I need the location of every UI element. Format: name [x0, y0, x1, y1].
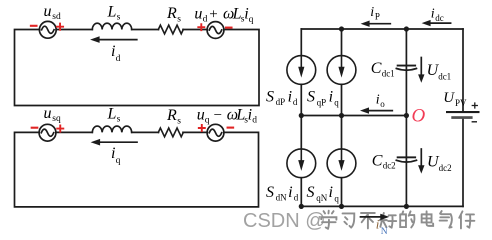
svg-text:d: d	[252, 116, 257, 126]
svg-text:q: q	[334, 193, 339, 203]
wire branch3 capacitor vertical	[405, 29, 407, 206]
svg-text:R: R	[166, 5, 177, 22]
watermark hanzi hao	[380, 213, 397, 228]
inductor L_s	[92, 23, 131, 29]
svg-text:S: S	[307, 184, 315, 201]
svg-text:d: d	[294, 192, 299, 202]
svg-text:O: O	[412, 106, 426, 127]
wire loop1 rectangle	[15, 30, 260, 106]
svg-text:qP: qP	[317, 97, 327, 107]
svg-text:i: i	[329, 184, 333, 201]
polarity plus of u_sq	[57, 126, 63, 132]
label u_sq	[44, 105, 61, 124]
label C_dc1	[371, 60, 395, 78]
arrow i_P	[368, 23, 390, 25]
label i_P	[370, 5, 380, 21]
junction dot bottom rail x406	[404, 204, 409, 209]
battery plus	[472, 103, 477, 108]
wire right side vertical with battery gap	[462, 29, 464, 206]
wire top rail	[301, 28, 463, 30]
polarity plus of u_d source	[198, 24, 204, 30]
current source S_qN i_q	[327, 149, 356, 178]
label S_dP i_d	[266, 88, 298, 106]
polarity plus of u_q source	[199, 125, 205, 131]
svg-text:s: s	[117, 115, 121, 125]
polarity minus of u_q source	[228, 127, 234, 129]
svg-text:d: d	[116, 54, 121, 64]
wire bottom rail	[301, 205, 463, 207]
svg-text:L: L	[107, 3, 117, 20]
svg-text:s: s	[117, 13, 121, 23]
svg-text:i: i	[431, 7, 435, 22]
wire loop2 source1 to inductor	[56, 131, 93, 133]
label S_dN i_d	[266, 184, 299, 202]
label C_dc2	[372, 152, 396, 170]
svg-text:i: i	[288, 184, 292, 201]
junction dot bottom rail x341	[339, 204, 344, 209]
label i_N	[376, 217, 388, 238]
voltage arrow U_dc2	[420, 149, 422, 166]
label i_q	[111, 145, 121, 166]
current arrow i_d	[98, 39, 137, 41]
svg-text:−: −	[214, 107, 222, 123]
svg-text:PV: PV	[455, 98, 467, 108]
svg-text:R: R	[166, 107, 177, 124]
svg-text:i: i	[376, 93, 380, 108]
watermark hanzi xi	[343, 213, 355, 227]
svg-text:dc2: dc2	[383, 161, 396, 171]
svg-text:i: i	[329, 88, 333, 105]
svg-text:S: S	[266, 88, 274, 105]
label R_s	[166, 5, 181, 24]
svg-text:q: q	[334, 97, 339, 107]
watermark hanzi xue	[321, 211, 336, 229]
capacitor C_dc2	[396, 156, 416, 162]
junction dot mid rail x341	[339, 113, 344, 118]
svg-text:i: i	[288, 88, 292, 105]
svg-text:s: s	[177, 14, 181, 24]
wire branch2 vertical	[341, 29, 343, 206]
svg-text:o: o	[380, 99, 385, 109]
label i_o	[376, 93, 386, 110]
label i_d	[111, 43, 121, 64]
wire loop2 resistor to source2	[183, 131, 207, 133]
junction dot top rail x341	[339, 26, 344, 31]
svg-text:s: s	[177, 116, 181, 126]
svg-text:u: u	[197, 106, 205, 123]
svg-text:q: q	[205, 116, 210, 126]
svg-text:S: S	[266, 184, 274, 201]
label U_dc2	[427, 154, 452, 174]
label U_dc1	[427, 62, 452, 82]
resistor R_s loop2	[158, 128, 183, 137]
voltage arrow U_dc1	[420, 58, 422, 76]
current source S_dP i_d	[287, 56, 316, 85]
current source S_dN i_d	[287, 149, 316, 178]
junction dot bottom rail x301	[299, 204, 304, 209]
svg-text:sq: sq	[52, 114, 61, 124]
label S_qP i_q	[307, 88, 339, 107]
label S_qN i_q	[307, 184, 340, 203]
AC source u_d + wLs iq	[207, 22, 224, 39]
label i_dc	[431, 7, 444, 23]
svg-text:q: q	[249, 15, 254, 25]
AC source u_q - wLs id	[207, 124, 224, 141]
wire branch1 vertical	[300, 29, 302, 206]
watermark hanzi bu	[361, 213, 375, 228]
wire loop1 source1 to inductor	[56, 29, 92, 31]
svg-text:d: d	[293, 97, 298, 107]
svg-text:u: u	[44, 3, 52, 20]
wire loop2 inductor to resistor	[132, 131, 159, 133]
polarity minus of u_sd	[31, 25, 37, 27]
label L_s	[107, 3, 121, 22]
wire loop2 rectangle	[15, 132, 259, 207]
svg-text:+: +	[209, 6, 217, 22]
polarity minus of u_sq	[32, 127, 38, 129]
svg-text:dc2: dc2	[439, 163, 452, 173]
svg-text:i: i	[370, 5, 374, 20]
svg-text:sd: sd	[52, 12, 61, 22]
current arrow i_q	[98, 141, 137, 143]
svg-text:CSDN @: CSDN @	[243, 210, 326, 232]
svg-text:L: L	[107, 105, 117, 122]
label u_q - omega L_s i_d	[197, 106, 258, 125]
svg-text:N: N	[381, 227, 388, 237]
svg-text:U: U	[443, 90, 455, 106]
svg-text:C: C	[372, 152, 383, 169]
wire loop1 resistor to source2	[183, 29, 207, 31]
label u_d + omega L_s i_q	[194, 5, 253, 25]
watermark hanzi dian	[422, 211, 434, 225]
polarity minus of u_d source	[226, 27, 232, 29]
inductor L_s loop2	[92, 126, 131, 132]
svg-text:dN: dN	[276, 192, 288, 202]
label u_sd	[44, 3, 61, 22]
svg-text:dc1: dc1	[382, 69, 395, 79]
junction dot node O	[404, 113, 409, 118]
label L_s loop2	[107, 105, 121, 124]
svg-text:d: d	[203, 15, 208, 25]
svg-text:dc: dc	[435, 13, 444, 23]
resistor R_s	[158, 25, 183, 34]
svg-text:u: u	[194, 5, 202, 22]
battery minus	[472, 121, 476, 123]
svg-text:u: u	[44, 105, 52, 122]
svg-text:C: C	[371, 60, 382, 77]
label U_PV	[443, 90, 467, 108]
svg-text:i: i	[376, 217, 380, 232]
watermark hanzi de	[400, 211, 414, 227]
AC source u_sq	[39, 124, 56, 141]
wire mid rail	[301, 115, 406, 117]
svg-text:S: S	[307, 88, 315, 105]
junction dot mid rail x301	[299, 113, 304, 118]
svg-text:dc1: dc1	[438, 72, 451, 82]
arrow i_o	[367, 110, 392, 112]
svg-text:P: P	[375, 11, 380, 21]
svg-text:q: q	[116, 156, 121, 166]
wire loop1 inductor to resistor	[132, 29, 159, 31]
polarity plus of u_sd	[57, 24, 63, 30]
current source S_qP i_q	[327, 56, 356, 85]
arrow i_dc	[429, 22, 451, 24]
AC source u_sd	[39, 21, 56, 38]
arrow i_N	[361, 216, 382, 218]
capacitor C_dc1	[396, 65, 416, 71]
svg-text:qN: qN	[316, 193, 328, 203]
junction dot top rail x406	[404, 26, 409, 31]
svg-text:dP: dP	[276, 97, 286, 107]
label R_s loop2	[166, 107, 181, 126]
PV source battery U_PV	[446, 111, 480, 119]
watermark hanzi zai	[459, 211, 474, 228]
watermark hanzi qi	[440, 211, 452, 228]
